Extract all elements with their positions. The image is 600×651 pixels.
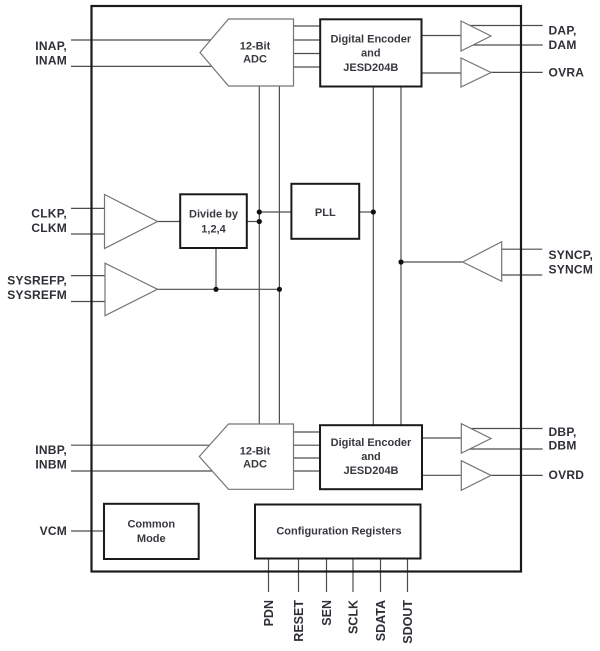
- svg-text:INAM: INAM: [35, 54, 67, 68]
- wire SYSREFP input: [71, 275, 105, 277]
- wire SYNCM input: [502, 274, 543, 276]
- sysref input buffer: [105, 263, 158, 315]
- ADC channel B (12-Bit ADC): [199, 424, 293, 489]
- configuration registers block: [255, 505, 421, 559]
- wire DAP output: [468, 25, 543, 27]
- svg-text:SYSREFP,: SYSREFP,: [7, 274, 67, 288]
- svg-text:1,2,4: 1,2,4: [201, 223, 226, 235]
- wire DBP output: [468, 428, 543, 430]
- wire sysref buffer output to net B: [158, 288, 280, 290]
- wire PLL output: [359, 211, 373, 213]
- clock input buffer: [105, 195, 158, 249]
- wire encoder1 to OVRA buffer: [422, 72, 462, 74]
- wire PLL input: [259, 211, 291, 213]
- svg-text:SEN: SEN: [320, 600, 334, 626]
- wire encoder2 to DBP/DBM buffer: [422, 437, 461, 439]
- wire INAM input: [71, 65, 216, 67]
- wire CLKM input: [71, 233, 105, 235]
- wire SYNC vertical net D: [400, 87, 402, 426]
- wire SYNC buffer output to net D: [401, 261, 463, 263]
- wire DAM output: [469, 44, 543, 46]
- svg-text:RESET: RESET: [292, 600, 306, 642]
- wire INAP input: [71, 39, 214, 41]
- svg-text:SDATA: SDATA: [374, 600, 388, 641]
- wire DBM output: [469, 448, 543, 450]
- svg-text:CLKP,: CLKP,: [31, 206, 67, 220]
- svg-text:Divide by: Divide by: [189, 209, 239, 221]
- svg-text:INAP,: INAP,: [35, 39, 67, 53]
- svg-text:DBP,: DBP,: [549, 425, 577, 439]
- wire ADC1 to encoder1 bus line 3: [294, 53, 321, 55]
- svg-text:DAM: DAM: [549, 38, 577, 52]
- wire SYSREFM input: [71, 301, 105, 303]
- svg-text:INBP,: INBP,: [35, 443, 67, 457]
- svg-text:DAP,: DAP,: [549, 24, 577, 38]
- svg-text:SYNCP,: SYNCP,: [549, 248, 594, 262]
- wire pin SDATA: [380, 559, 382, 593]
- wire pin SEN: [326, 559, 328, 593]
- wire ADC2 to encoder2 bus line 4: [294, 470, 321, 472]
- wire ADC1 to encoder1 bus line 4: [294, 66, 321, 68]
- svg-text:Digital Encoder: Digital Encoder: [331, 437, 412, 449]
- wire INBM input: [71, 470, 216, 472]
- svg-text:SDOUT: SDOUT: [401, 600, 415, 644]
- DBP/DBM output buffer: [461, 424, 491, 454]
- junction divide output: [257, 219, 262, 224]
- svg-text:OVRA: OVRA: [549, 65, 585, 79]
- wire encoder1 to DAP/DAM buffer: [422, 35, 462, 37]
- junction sync net D: [398, 259, 403, 264]
- wire sysref vertical net B: [278, 86, 280, 424]
- wire divide output to clock net: [247, 221, 259, 223]
- common mode block: [104, 504, 199, 559]
- svg-text:12-Bit: 12-Bit: [240, 446, 271, 458]
- wire ADC1 to encoder1 bus line 2: [294, 39, 321, 41]
- OVRA output buffer: [461, 58, 491, 87]
- wire SYNCP input: [502, 248, 543, 250]
- wire VCM input: [71, 530, 104, 532]
- wire INBP input: [71, 444, 214, 446]
- svg-text:ADC: ADC: [243, 54, 267, 66]
- chip outer border: [92, 6, 522, 572]
- wire OVRA output: [491, 71, 543, 73]
- svg-text:SYNCM: SYNCM: [549, 263, 594, 277]
- ADC channel A (12-Bit ADC): [200, 19, 294, 86]
- digital encoder U2 (channel B JESD204B): [320, 425, 422, 489]
- junction clock to PLL: [257, 209, 262, 214]
- wire OVRD output: [491, 474, 543, 476]
- wire pin RESET: [298, 559, 300, 593]
- wire divide block down to sysref line: [215, 248, 217, 289]
- wire pin PDN: [268, 559, 270, 593]
- wire clock vertical net A: [258, 86, 260, 424]
- svg-text:ADC: ADC: [243, 459, 267, 471]
- junction divide down to sysref: [213, 287, 218, 292]
- svg-text:JESD204B: JESD204B: [343, 465, 398, 477]
- svg-text:Mode: Mode: [137, 533, 166, 545]
- PLL block: [291, 184, 359, 239]
- svg-text:PLL: PLL: [315, 207, 336, 219]
- wire ADC2 to encoder2 bus line 2: [294, 444, 321, 446]
- svg-text:INBM: INBM: [35, 458, 67, 472]
- junction PLL output net C: [371, 209, 376, 214]
- wire ADC1 to encoder1 bus line 1: [294, 25, 321, 27]
- svg-text:SYSREFM: SYSREFM: [7, 288, 67, 302]
- svg-text:SCLK: SCLK: [347, 600, 361, 634]
- svg-text:and: and: [361, 48, 381, 60]
- svg-text:and: and: [361, 451, 381, 463]
- DAP/DAM output buffer: [461, 21, 491, 51]
- svg-text:PDN: PDN: [262, 600, 276, 626]
- svg-text:Digital Encoder: Digital Encoder: [330, 34, 411, 46]
- wire PLL vertical net C: [372, 87, 374, 426]
- wire pin SCLK: [352, 559, 354, 593]
- svg-text:12-Bit: 12-Bit: [240, 41, 271, 53]
- wire pin SDOUT: [407, 559, 409, 593]
- wire clock buffer to divide block: [158, 221, 181, 223]
- wire encoder2 to OVRD buffer: [422, 474, 461, 476]
- svg-text:OVRD: OVRD: [549, 468, 585, 482]
- svg-text:Common: Common: [127, 519, 175, 531]
- svg-text:VCM: VCM: [40, 524, 67, 538]
- divide by 1,2,4 block: [180, 194, 247, 248]
- wire CLKP input: [71, 207, 105, 209]
- sync input buffer (points left): [463, 242, 502, 282]
- digital encoder U1 (channel A JESD204B): [320, 19, 421, 86]
- junction sysref net B: [277, 287, 282, 292]
- wire ADC2 to encoder2 bus line 3: [294, 457, 321, 459]
- wire ADC2 to encoder2 bus line 1: [294, 431, 321, 433]
- svg-text:Configuration Registers: Configuration Registers: [276, 526, 401, 538]
- svg-text:DBM: DBM: [549, 438, 577, 452]
- svg-text:CLKM: CLKM: [31, 221, 67, 235]
- OVRD output buffer: [461, 461, 491, 491]
- svg-text:JESD204B: JESD204B: [343, 62, 398, 74]
